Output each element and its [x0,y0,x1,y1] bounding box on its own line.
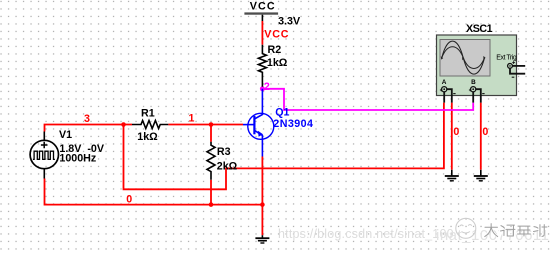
svg-text:V1: V1 [59,129,72,141]
svg-text:VCC: VCC [250,1,276,13]
svg-text:3: 3 [84,113,90,125]
svg-text:1: 1 [189,112,195,124]
svg-text:3.3V: 3.3V [278,16,301,28]
svg-text:https://blog.csdn.net/sinat_10: https://blog.csdn.net/sinat_100 [278,227,454,241]
svg-text:Q1: Q1 [275,107,289,119]
svg-text:A: A [442,79,447,86]
svg-text:R1: R1 [141,107,155,119]
svg-text:1kΩ: 1kΩ [267,57,288,69]
svg-text:0: 0 [126,193,132,205]
svg-text:Ext Trig: Ext Trig [496,55,517,62]
svg-text:1kΩ: 1kΩ [137,131,158,143]
svg-text:B: B [471,79,476,86]
svg-text:2kΩ: 2kΩ [217,161,238,173]
svg-text:0: 0 [482,126,488,138]
svg-text:R2: R2 [268,44,282,56]
svg-text:0: 0 [453,126,459,138]
svg-text:2N3904: 2N3904 [273,118,313,130]
svg-text:XSC1: XSC1 [466,23,493,35]
svg-text:VCC: VCC [264,29,289,41]
svg-text:2: 2 [264,81,270,93]
svg-text:R3: R3 [217,146,231,158]
svg-text:1000Hz: 1000Hz [59,153,96,165]
